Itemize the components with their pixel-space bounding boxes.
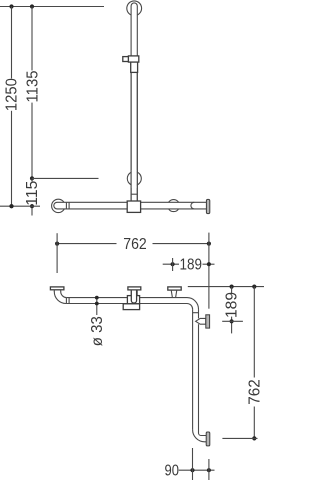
rail tube lines over rosette xyxy=(130,72,132,201)
joint line on right bar xyxy=(193,312,199,314)
witness line flange axis xyxy=(172,258,174,271)
bar plan bottom line xyxy=(66,303,187,305)
rail mount plate plan xyxy=(128,287,141,290)
dim endpoint dot top-left (1250) xyxy=(9,4,13,8)
rail lower housing plan xyxy=(123,304,139,310)
wall rosette top of shower rail xyxy=(127,1,142,16)
slider knob xyxy=(123,57,129,62)
leader dot on bar top edge xyxy=(95,296,99,300)
rail clamp block plan xyxy=(127,296,139,304)
horizontal grab bar with domed left end xyxy=(54,202,207,209)
dimension line 1250 vertical xyxy=(11,7,13,207)
sleeve dome arc on right part of bar xyxy=(191,202,194,209)
left wall rosette of horizontal bar xyxy=(52,199,65,212)
witness line bracket axis xyxy=(222,320,243,322)
corner elbow plan xyxy=(187,298,199,310)
dim endpoint dot 762 right xyxy=(207,242,211,246)
bottom elbow of right bar xyxy=(193,430,207,442)
dim endpoint dot (1135 bottom) xyxy=(30,176,34,180)
extension line bar end axis xyxy=(222,437,257,439)
dim endpoint dot 90 left xyxy=(190,468,194,472)
leader dot on bar bottom edge xyxy=(95,302,99,306)
dimension extension line top xyxy=(0,6,104,8)
wall line top right xyxy=(188,286,264,288)
svg-text:762: 762 xyxy=(247,379,264,405)
left elbow into bar xyxy=(54,292,68,304)
right bar segment lines xyxy=(192,309,194,430)
dim endpoint dot (115 bottom) xyxy=(30,204,34,208)
slider lower sleeve xyxy=(131,62,138,72)
dim endpoint dot 90 right xyxy=(207,468,211,472)
bar collar joint lines xyxy=(65,202,67,209)
extension line at bar axis level xyxy=(0,205,40,207)
dim endpoint dot 762v bottom xyxy=(252,436,256,440)
bottom flange plate xyxy=(206,432,210,446)
wall bracket plate xyxy=(206,315,210,328)
witness line left flange axis xyxy=(56,233,58,273)
dimension line 762 vertical right xyxy=(253,287,255,439)
dim endpoint dot on bar axis extension xyxy=(9,204,13,208)
svg-text:90: 90 xyxy=(165,462,180,479)
dot on wall line (762 vertical) xyxy=(252,285,256,289)
glide circle on horizontal bar xyxy=(168,200,180,212)
dimension line 115 vertical with extension below xyxy=(31,178,33,215)
bar plan top line xyxy=(67,297,187,299)
witness line bar edge xyxy=(192,448,194,480)
dim endpoint dot top (1135) xyxy=(30,4,34,8)
shower rail tube with domed top xyxy=(131,3,137,201)
slider body xyxy=(128,56,138,62)
svg-text:189: 189 xyxy=(180,256,203,273)
dimension line 189 horizontal xyxy=(163,263,215,265)
dim endpoint dot 189 right xyxy=(207,262,211,266)
rail joint line xyxy=(131,193,137,195)
svg-text:115: 115 xyxy=(24,181,41,206)
dot on wall line (189 vertical) xyxy=(230,285,234,289)
witness line wall xyxy=(208,459,210,480)
svg-text:189: 189 xyxy=(223,292,240,318)
rail mount stem xyxy=(130,290,132,296)
dimension line 189 vertical xyxy=(231,287,233,334)
svg-text:ø 33: ø 33 xyxy=(89,316,106,346)
rail tube end plan (U shape) xyxy=(131,291,136,304)
svg-text:762: 762 xyxy=(123,236,147,253)
left flange plate plan xyxy=(50,287,64,290)
junction block rail-to-bar xyxy=(127,201,140,212)
dim endpoint dot 762 left xyxy=(55,242,59,246)
dimension line 762 top xyxy=(57,243,209,245)
right flange plate plan xyxy=(168,287,181,290)
extension line at rail bracket level xyxy=(32,177,99,179)
leader line dia 33 xyxy=(96,298,98,315)
rail wall bracket rosette (glide circle) xyxy=(127,172,141,186)
dimension line 90 xyxy=(179,469,215,471)
wall bracket cone on right bar xyxy=(196,318,206,324)
svg-text:1135: 1135 xyxy=(24,71,41,103)
svg-text:1250: 1250 xyxy=(4,78,21,111)
white cover of rail over rosette xyxy=(132,170,137,188)
dimension line 1135 vertical xyxy=(31,7,33,179)
right flange cone xyxy=(171,290,177,298)
witness line right wall xyxy=(208,233,210,309)
bar collar joint plan xyxy=(65,298,67,304)
dim endpoint dot 189v bottom xyxy=(230,319,234,323)
bar right end plate xyxy=(206,199,209,213)
left flange neck xyxy=(53,290,55,292)
dim endpoint dot bottom (1250) xyxy=(9,204,13,208)
dim endpoint dot 189 left xyxy=(171,262,175,266)
